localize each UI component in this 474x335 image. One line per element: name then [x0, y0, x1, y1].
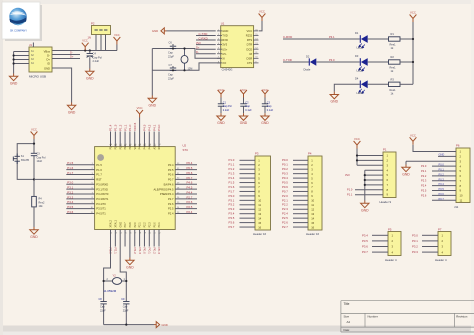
svg-text:XI: XI — [222, 56, 225, 60]
svg-text:P3.5: P3.5 — [67, 205, 73, 209]
junction — [89, 49, 91, 51]
svg-text:P4.6: P4.6 — [187, 181, 193, 185]
junction — [172, 69, 174, 71]
wire P5 pins — [372, 234, 388, 236]
svg-text:12: 12 — [258, 207, 261, 211]
svg-text:P2.5: P2.5 — [421, 188, 427, 192]
svg-text:D1: D1 — [355, 31, 359, 35]
wire XTAL2 — [104, 230, 111, 302]
svg-text:22pF: 22pF — [100, 309, 106, 312]
crystal Y1 — [181, 55, 188, 63]
switch S1 SW-PB — [13, 154, 20, 165]
wire — [400, 38, 413, 40]
svg-text:P2.1: P2.1 — [139, 222, 142, 228]
svg-text:P3.0: P3.0 — [229, 194, 235, 198]
power VCC — [31, 132, 38, 140]
power VCC — [114, 37, 121, 45]
wire — [368, 38, 389, 40]
ground — [154, 322, 160, 328]
svg-text:SW-PB: SW-PB — [21, 159, 29, 162]
svg-text:P0.6: P0.6 — [187, 171, 193, 175]
svg-text:P3.5: P3.5 — [229, 216, 235, 220]
power VCC — [354, 141, 361, 149]
svg-text:P2.3: P2.3 — [148, 222, 151, 228]
svg-text:J1: J1 — [29, 43, 32, 47]
svg-text:P3.3: P3.3 — [229, 207, 235, 211]
capacitor C4 — [89, 51, 91, 54]
svg-text:P1.4: P1.4 — [229, 176, 235, 180]
wire CH340G right stubs — [253, 30, 259, 32]
svg-text:P4: P4 — [308, 152, 312, 156]
wire VCC rail — [412, 22, 414, 84]
svg-text:P2: P2 — [91, 22, 95, 26]
power VCC — [259, 14, 266, 22]
svg-text:C7: C7 — [169, 63, 173, 67]
svg-text:Cap: Cap — [267, 105, 272, 108]
svg-text:P2.1: P2.1 — [114, 248, 118, 255]
LED D4 — [359, 80, 368, 93]
svg-text:P2.6: P2.6 — [282, 221, 288, 225]
junction — [356, 154, 358, 156]
svg-text:VCC: VCC — [354, 137, 360, 141]
svg-text:P3.3/INT1: P3.3/INT1 — [96, 197, 109, 201]
svg-text:P0.3: P0.3 — [157, 248, 161, 255]
junction — [183, 69, 185, 71]
svg-text:P2.5: P2.5 — [187, 205, 193, 209]
svg-text:P0.0: P0.0 — [143, 248, 147, 255]
svg-text:U1: U1 — [221, 22, 225, 26]
svg-text:12: 12 — [311, 207, 314, 211]
svg-text:P4.0: P4.0 — [157, 124, 161, 131]
ground — [361, 201, 369, 208]
svg-text:P3.0/RXD: P3.0/RXD — [96, 182, 108, 186]
svg-text:U5-: U5- — [222, 52, 226, 56]
svg-text:P3.3: P3.3 — [412, 250, 418, 254]
svg-text:GND: GND — [119, 222, 122, 228]
junction — [84, 49, 86, 51]
svg-text:P1.7: P1.7 — [96, 173, 102, 177]
svg-text:22pF: 22pF — [168, 76, 174, 80]
svg-text:C6: C6 — [169, 41, 173, 45]
svg-text:D-: D- — [70, 51, 73, 55]
svg-text:P3.7: P3.7 — [362, 250, 368, 254]
svg-text:P2.7: P2.7 — [187, 195, 193, 199]
svg-text:P2.2: P2.2 — [282, 203, 288, 207]
svg-text:P3.1: P3.1 — [229, 198, 235, 202]
svg-text:EA/P4.6: EA/P4.6 — [164, 182, 174, 186]
svg-text:14: 14 — [258, 216, 261, 220]
title block — [341, 301, 474, 332]
svg-text:Res1: Res1 — [390, 66, 397, 70]
svg-text:Cap: Cap — [168, 73, 173, 77]
wire — [368, 83, 389, 85]
svg-text:P3.6: P3.6 — [229, 221, 235, 225]
wire USB left pins — [14, 51, 29, 53]
svg-text:P3.1/TXD: P3.1/TXD — [96, 187, 108, 191]
wire — [283, 38, 360, 40]
svg-text:P3.2: P3.2 — [412, 245, 418, 249]
svg-text:Res1: Res1 — [390, 43, 397, 47]
svg-text:10uF: 10uF — [37, 160, 43, 163]
wire bottom rail — [104, 324, 154, 326]
ground — [402, 165, 410, 172]
connector P7 Header 4 — [435, 228, 451, 263]
svg-text:D+: D+ — [196, 46, 200, 50]
svg-text:P1.4: P1.4 — [109, 124, 113, 131]
svg-text:Header 9: Header 9 — [380, 200, 392, 204]
svg-text:D4: D4 — [355, 77, 359, 81]
svg-text:Header 4: Header 4 — [385, 258, 397, 262]
svg-text:P2.6: P2.6 — [168, 202, 174, 206]
resistor R2 — [389, 60, 401, 64]
resistor R3 — [389, 82, 401, 86]
svg-text:P3.0: P3.0 — [412, 233, 418, 237]
wire MCU right pins — [175, 164, 197, 166]
svg-text:14: 14 — [311, 216, 314, 220]
capacitor C3 — [31, 153, 37, 155]
wire vcc to pin1 — [413, 145, 456, 152]
svg-text:VCC: VCC — [137, 106, 143, 110]
svg-text:P0.3: P0.3 — [439, 177, 445, 181]
svg-text:P0.4: P0.4 — [168, 163, 174, 167]
svg-text:P1.3: P1.3 — [229, 172, 235, 176]
svg-text:P2.4: P2.4 — [282, 212, 288, 216]
svg-text:P3.4: P3.4 — [362, 233, 368, 237]
svg-text:2.2uF: 2.2uF — [93, 59, 100, 63]
svg-text:P2.6: P2.6 — [187, 200, 193, 204]
svg-text:P2.3: P2.3 — [282, 207, 288, 211]
IC U1 CH340G — [221, 22, 254, 72]
svg-text:C-TXD: C-TXD — [283, 58, 292, 62]
svg-text:P1.2: P1.2 — [229, 167, 235, 171]
svg-text:P0.2: P0.2 — [439, 172, 445, 176]
junction — [125, 280, 127, 282]
svg-text:P2.0: P2.0 — [134, 222, 137, 228]
svg-text:GND: GND — [152, 29, 158, 33]
svg-text:P0.7: P0.7 — [187, 176, 193, 180]
svg-text:P6: P6 — [456, 144, 460, 148]
svg-text:P0.6: P0.6 — [168, 173, 174, 177]
svg-text:16: 16 — [258, 225, 261, 229]
svg-text:P1.6: P1.6 — [229, 185, 235, 189]
svg-text:P3.0: P3.0 — [329, 58, 335, 62]
ground — [86, 69, 94, 76]
svg-text:0.1uF: 0.1uF — [245, 109, 252, 112]
wire D+ — [52, 58, 80, 60]
svg-text:DSR: DSR — [247, 56, 253, 60]
svg-text:P1.5: P1.5 — [229, 180, 235, 184]
connector P1 Header 9 — [380, 148, 397, 205]
svg-text:P1: P1 — [383, 148, 387, 152]
svg-text:P2.0: P2.0 — [421, 164, 427, 168]
svg-text:P2.1: P2.1 — [421, 169, 427, 173]
wire — [33, 207, 35, 227]
capacitor C3 — [262, 88, 274, 113]
junction — [364, 184, 366, 186]
svg-text:GND: GND — [439, 153, 445, 157]
svg-text:P2.0: P2.0 — [282, 194, 288, 198]
svg-text:P3.2: P3.2 — [229, 203, 235, 207]
svg-text:R3: R3 — [391, 78, 395, 82]
wire USB GND down — [52, 68, 72, 103]
svg-text:3V3: 3V3 — [345, 173, 350, 177]
svg-text:P1.2: P1.2 — [118, 124, 122, 131]
svg-text:GND: GND — [222, 29, 228, 33]
svg-text:VCC: VCC — [410, 11, 416, 15]
svg-text:P0.2: P0.2 — [282, 167, 288, 171]
power VCC — [136, 110, 143, 118]
connector J1 MICRO USB — [29, 43, 52, 79]
connector P4 Header 16 — [306, 152, 322, 236]
svg-text:P4.1: P4.1 — [152, 124, 156, 131]
svg-text:P2.5: P2.5 — [282, 216, 288, 220]
svg-text:P2.7: P2.7 — [282, 225, 288, 229]
svg-text:R232: R232 — [246, 34, 253, 38]
connector P3 Header 16 — [253, 152, 271, 236]
svg-text:P2.2: P2.2 — [144, 222, 147, 228]
svg-text:A4: A4 — [347, 320, 351, 324]
svg-text:P3: P3 — [255, 152, 259, 156]
svg-text:ID: ID — [47, 62, 50, 66]
resistor R4 — [32, 196, 37, 207]
svg-text:R1: R1 — [391, 32, 395, 36]
svg-text:TXD: TXD — [222, 34, 227, 38]
svg-text:13: 13 — [258, 212, 261, 216]
svg-text:GND: GND — [217, 121, 225, 125]
svg-text:3V3: 3V3 — [222, 43, 227, 47]
junction — [13, 62, 15, 64]
svg-text:P0.1: P0.1 — [158, 222, 161, 228]
svg-text:Revision: Revision — [456, 315, 467, 319]
junction — [364, 174, 366, 176]
svg-text:Header 4: Header 4 — [435, 258, 447, 262]
svg-text:P3.2/INT0: P3.2/INT0 — [96, 192, 109, 196]
svg-text:GND: GND — [68, 111, 76, 115]
svg-text:P3.5: P3.5 — [362, 239, 368, 243]
svg-text:P2.4: P2.4 — [421, 184, 427, 188]
wire — [400, 61, 413, 63]
svg-text:VCC: VCC — [82, 39, 88, 43]
svg-text:Diode: Diode — [304, 67, 311, 71]
svg-text:GND: GND — [86, 77, 94, 81]
svg-text:13: 13 — [311, 212, 314, 216]
svg-text:P3.5/T1: P3.5/T1 — [96, 207, 106, 211]
ground — [67, 103, 75, 110]
svg-text:Cap Pol: Cap Pol — [223, 105, 232, 108]
svg-text:P0.4: P0.4 — [282, 176, 288, 180]
svg-text:P0.6: P0.6 — [282, 185, 288, 189]
svg-text:GND: GND — [361, 209, 369, 213]
svg-text:P4.5/T1: P4.5/T1 — [96, 212, 106, 216]
svg-text:STC: STC — [183, 148, 189, 152]
svg-text:P1.6: P1.6 — [96, 168, 102, 172]
svg-text:P4.3: P4.3 — [143, 124, 147, 131]
svg-text:C4: C4 — [93, 52, 97, 56]
svg-text:Title: Title — [344, 302, 350, 306]
svg-text:Res2: Res2 — [39, 201, 45, 204]
svg-text:XTAL2: XTAL2 — [110, 219, 113, 227]
wire MCU top pins — [110, 132, 112, 147]
svg-text:LED0: LED0 — [357, 46, 364, 50]
wire XTAL1 — [120, 230, 126, 302]
wire XI rail — [152, 49, 220, 59]
svg-text:P2.4: P2.4 — [168, 212, 174, 216]
svg-text:P3.6: P3.6 — [67, 210, 73, 214]
svg-text:D2: D2 — [306, 55, 310, 59]
wire UD+ — [196, 48, 216, 50]
svg-text:1N: 1N — [88, 36, 91, 40]
svg-text:P0.1: P0.1 — [148, 248, 152, 255]
connector P6 Header 11 — [454, 144, 470, 210]
svg-text:P1.7: P1.7 — [67, 171, 73, 175]
svg-text:P3.3: P3.3 — [67, 195, 73, 199]
junction — [33, 178, 35, 180]
svg-text:P0.1: P0.1 — [439, 168, 445, 172]
svg-text:GND: GND — [331, 100, 339, 104]
svg-text:VCC: VCC — [241, 88, 247, 92]
wire GND pin — [129, 230, 131, 258]
svg-text:P0.2: P0.2 — [152, 248, 156, 255]
svg-text:P2.3: P2.3 — [421, 179, 427, 183]
svg-text:R2: R2 — [391, 55, 395, 59]
connector P2 — [88, 22, 111, 40]
power VCC — [410, 137, 417, 145]
wire vcc rows — [356, 149, 358, 166]
svg-text:P3.0: P3.0 — [67, 181, 73, 185]
svg-text:P7: P7 — [438, 228, 442, 232]
svg-text:CTS: CTS — [247, 61, 253, 65]
svg-text:10: 10 — [311, 199, 314, 203]
junction — [183, 47, 185, 49]
svg-text:DCD: DCD — [246, 47, 252, 51]
svg-text:Header 16: Header 16 — [306, 232, 320, 236]
wire — [400, 83, 413, 85]
svg-text:Cap: Cap — [168, 51, 173, 55]
wire MCU left pins — [66, 164, 94, 166]
ground — [148, 96, 156, 103]
svg-text:D-: D- — [47, 54, 50, 58]
svg-text:VCC: VCC — [247, 29, 253, 33]
logo — [2, 2, 42, 41]
svg-text:Cap: Cap — [245, 105, 250, 108]
svg-text:RX: RX — [158, 146, 161, 150]
power VCC — [410, 15, 417, 23]
svg-text:P2.7: P2.7 — [168, 197, 174, 201]
svg-text:P2.6: P2.6 — [421, 193, 427, 197]
svg-text:P1.0: P1.0 — [128, 124, 132, 131]
svg-text:P0.5: P0.5 — [187, 166, 193, 170]
LED D3 — [359, 58, 368, 71]
svg-text:DTR: DTR — [247, 43, 253, 47]
svg-text:10: 10 — [460, 194, 463, 198]
junction — [103, 280, 105, 282]
svg-text:GND: GND — [162, 323, 168, 327]
svg-text:Cap Pol: Cap Pol — [93, 55, 103, 59]
wire — [334, 84, 360, 91]
svg-text:XTAL1: XTAL1 — [114, 219, 117, 227]
junction — [412, 61, 414, 63]
svg-text:P2.4: P2.4 — [187, 210, 193, 214]
ground — [30, 227, 38, 234]
svg-text:P1.3: P1.3 — [114, 124, 118, 131]
svg-text:VCC: VCC — [218, 88, 224, 92]
svg-text:P0.5: P0.5 — [168, 168, 174, 172]
svg-text:Cap: Cap — [123, 306, 128, 309]
svg-text:GND: GND — [30, 235, 38, 239]
svg-text:GND: GND — [126, 266, 134, 270]
svg-text:VCC3: VCC3 — [133, 122, 137, 131]
svg-text:D+: D+ — [70, 55, 74, 59]
junction — [13, 54, 15, 56]
svg-text:VBus: VBus — [44, 50, 51, 54]
svg-text:P0.1: P0.1 — [282, 163, 288, 167]
svg-text:P0.0: P0.0 — [282, 158, 288, 162]
svg-text:P1.1: P1.1 — [123, 124, 127, 131]
svg-text:P0.7: P0.7 — [282, 189, 288, 193]
svg-text:CH340G: CH340G — [222, 68, 233, 72]
svg-text:U5+: U5+ — [222, 47, 227, 51]
svg-text:3V3: 3V3 — [196, 41, 201, 45]
wire MCU bottom pins — [114, 230, 116, 247]
LED D1 — [359, 35, 368, 48]
svg-text:Date:: Date: — [344, 328, 351, 332]
capacitor C2 — [240, 88, 252, 113]
svg-text:15: 15 — [311, 221, 314, 225]
wire pin2 — [438, 155, 456, 157]
svg-text:Size: Size — [344, 315, 350, 319]
junction — [13, 58, 15, 60]
svg-text:P3.1: P3.1 — [329, 35, 335, 39]
capacitor C8 — [100, 302, 106, 304]
svg-text:P3.7: P3.7 — [229, 225, 235, 229]
wire — [317, 61, 360, 63]
wire gnd rows — [364, 170, 366, 200]
svg-text:P2.2: P2.2 — [133, 248, 137, 255]
svg-text:P3.4/T0: P3.4/T0 — [96, 202, 106, 206]
junction — [172, 47, 174, 49]
svg-text:22pF: 22pF — [123, 309, 129, 312]
wire P4 pins — [293, 159, 308, 161]
svg-text:C-RXD: C-RXD — [199, 36, 208, 40]
svg-text:P1.0: P1.0 — [347, 188, 353, 192]
svg-text:P4.5: P4.5 — [187, 186, 193, 190]
svg-text:P1.0: P1.0 — [229, 158, 235, 162]
wire gnd to pin3 — [406, 160, 456, 162]
svg-text:RI: RI — [250, 52, 253, 56]
wire CH340G left stubs — [217, 30, 222, 32]
wire gnd line — [151, 49, 153, 96]
svg-text:P2.5: P2.5 — [168, 207, 174, 211]
svg-text:P0.7: P0.7 — [168, 178, 174, 182]
ground — [239, 113, 247, 120]
svg-text:LED0: LED0 — [357, 91, 364, 95]
wire GND pin — [167, 30, 216, 32]
svg-text:C-RXD: C-RXD — [283, 35, 292, 39]
svg-text:P3.4: P3.4 — [67, 200, 73, 204]
svg-text:VCC: VCC — [114, 33, 120, 37]
wire 3V3 — [196, 44, 216, 46]
ground — [161, 28, 167, 34]
svg-text:12M: 12M — [188, 68, 193, 71]
wire TXD — [196, 35, 216, 37]
svg-text:P4.4: P4.4 — [187, 190, 193, 194]
svg-text:16: 16 — [311, 225, 314, 229]
svg-text:P1.5: P1.5 — [67, 161, 73, 165]
resistor R1 — [389, 37, 401, 41]
capacitor C9 — [123, 302, 129, 304]
svg-text:Header 16: Header 16 — [253, 232, 267, 236]
svg-text:Y2: Y2 — [113, 274, 117, 278]
